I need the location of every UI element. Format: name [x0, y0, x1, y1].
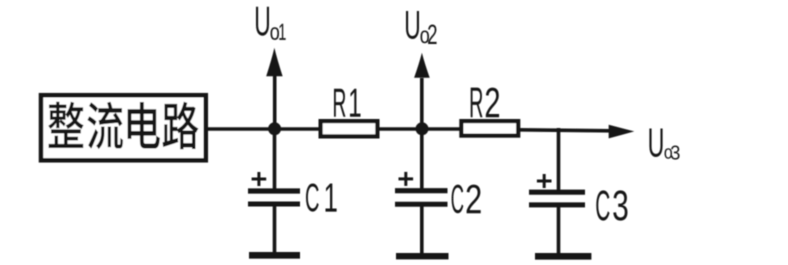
- capacitor C3: [529, 192, 585, 205]
- wire: R1 to node B: [379, 127, 423, 131]
- ground bar under C1: [249, 252, 300, 259]
- wire: node C on output wire down to capacitor C3: [557, 128, 561, 191]
- wire: node B up to U_o2 arrow: [420, 78, 424, 130]
- wire: rectifier output to node A: [205, 127, 276, 131]
- label C2: [452, 185, 481, 214]
- output arrowhead U_o3: [609, 125, 635, 139]
- label R2: [471, 88, 499, 118]
- node B junction dot: [416, 122, 429, 135]
- resistor R1: [321, 121, 378, 136]
- wire: C3 to ground: [557, 206, 561, 256]
- ground bar under C2: [396, 253, 449, 259]
- label C1: [306, 183, 337, 211]
- wire: C1 to ground: [273, 206, 277, 256]
- capacitor C3 polarity plus sign: [537, 174, 552, 188]
- label U_o2: [406, 11, 437, 44]
- rectifier block 整流电路: [41, 95, 206, 160]
- arrowhead U_o2: [414, 53, 430, 78]
- capacitor C1 polarity plus sign: [252, 172, 267, 186]
- wire: node A to R1: [274, 127, 319, 131]
- ground bar under C3: [535, 253, 591, 260]
- wire: R2 to output arrowhead: [518, 130, 612, 131]
- wire: node A up to U_o1 arrow: [273, 74, 277, 130]
- wire: C2 to ground: [420, 206, 424, 257]
- label U_o1: [256, 7, 286, 40]
- capacitor C2 polarity plus sign: [399, 172, 414, 186]
- arrowhead U_o1: [266, 48, 282, 76]
- label C3: [596, 190, 627, 220]
- node A junction dot: [268, 122, 281, 135]
- wire: node B to R2: [421, 127, 460, 131]
- capacitor C1: [248, 191, 300, 204]
- label R1: [334, 89, 360, 117]
- resistor R2: [461, 121, 518, 136]
- label U_o3: [649, 129, 679, 160]
- wire: node B down to capacitor C2: [420, 128, 424, 189]
- wire: node A down to capacitor C1: [273, 128, 277, 190]
- capacitor C2: [395, 191, 448, 205]
